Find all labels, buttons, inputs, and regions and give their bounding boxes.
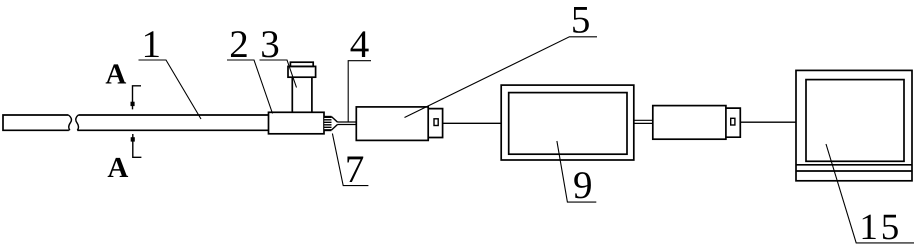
- connector box 5 tab: [428, 109, 442, 138]
- tube break curve left: [68, 115, 71, 130]
- svg-text:7: 7: [345, 148, 365, 191]
- connector box (right) tab: [726, 108, 740, 137]
- body block 2: [269, 112, 325, 134]
- cable wire 4 (double line): [338, 122, 357, 125]
- valve cylinder 3 rim: [288, 66, 316, 77]
- valve cylinder 3 body: [292, 77, 312, 112]
- connector box 5 pin window: [434, 119, 438, 126]
- svg-text:2: 2: [229, 23, 249, 66]
- leader line for label 7: [332, 134, 368, 186]
- svg-text:1: 1: [141, 23, 161, 66]
- insertion tube 1 (left segment with break): [3, 115, 69, 130]
- svg-text:A: A: [107, 152, 128, 184]
- svg-text:1: 1: [859, 207, 878, 248]
- connector box (right) pin window: [731, 118, 735, 125]
- svg-text:5: 5: [881, 207, 900, 248]
- svg-text:A: A: [105, 59, 126, 91]
- wire box5 to box9: [443, 122, 502, 124]
- section cut mark A-A bottom tick: [133, 134, 142, 157]
- leader line for label 9: [557, 141, 596, 202]
- section cut mark A-A top tick: [133, 86, 142, 110]
- leader line for label 1: [139, 60, 202, 119]
- monitor 15 base lines: [796, 165, 912, 171]
- section arrow top (small square): [131, 102, 135, 106]
- monitor 15 outer case: [796, 70, 912, 180]
- tube break curve right: [76, 115, 79, 130]
- section arrow bottom (small square): [131, 137, 135, 141]
- valve cylinder 3 cap: [290, 62, 313, 66]
- leader line for label 4: [348, 61, 371, 122]
- wire box9 to connector (double line): [634, 120, 653, 123]
- processor box 9 outer: [501, 85, 634, 160]
- svg-text:5: 5: [571, 0, 591, 42]
- ribbed strain relief 7: [324, 116, 331, 131]
- leader line for label 3: [260, 60, 297, 88]
- wire connector to monitor: [740, 121, 796, 123]
- connector box 5: [356, 107, 428, 140]
- cone tip of connector 7: [332, 117, 338, 130]
- svg-text:3: 3: [260, 23, 280, 66]
- processor box 9 inner: [509, 93, 627, 155]
- leader line for label 15: [826, 144, 914, 243]
- insertion tube 1 (right segment): [77, 115, 268, 130]
- svg-text:4: 4: [350, 23, 370, 66]
- svg-text:9: 9: [573, 164, 593, 207]
- connector box (right): [653, 106, 726, 140]
- monitor 15 screen: [806, 80, 904, 162]
- leader line for label 5: [405, 37, 598, 118]
- leader line for label 2: [227, 60, 273, 114]
